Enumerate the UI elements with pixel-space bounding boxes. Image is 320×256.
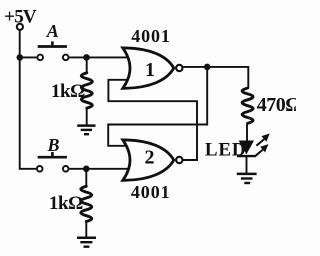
- svg-text:A: A: [46, 21, 59, 41]
- wire: resistor R2 down to ground: [85, 221, 87, 237]
- node: +5V supply terminal circle: [17, 24, 23, 30]
- ground below R1: [77, 126, 95, 135]
- svg-text:4001: 4001: [131, 26, 171, 46]
- wire: resistor R1 down to ground: [86, 108, 88, 125]
- NOR gate U1 (4001) gate 1 body: [123, 48, 174, 88]
- wire: gate 1 output to 470 ohm resistor (top net Q): [183, 67, 248, 89]
- node: junction dot Q output net: [204, 64, 211, 71]
- svg-text:LED: LED: [205, 139, 246, 160]
- wire: feedback from node Q down to gate 2 upper input: [108, 67, 207, 146]
- wire: feedback from gate 2 output up to gate 1 lower input: [108, 80, 197, 160]
- svg-text:470Ω: 470Ω: [257, 94, 296, 116]
- LED D1 triangle (anode): [240, 141, 254, 153]
- svg-text:2: 2: [145, 147, 155, 169]
- wire: switch B junction down to resistor R2: [85, 169, 87, 187]
- wire: switch B to NOR gate 2 input B: [69, 168, 128, 170]
- pushbutton A contacts: [37, 55, 68, 61]
- wire: switch A to NOR gate 1 input A: [69, 56, 128, 58]
- node: junction dot row A / rail: [17, 54, 24, 61]
- pushbutton A actuator bar: [38, 41, 67, 46]
- svg-text:4001: 4001: [131, 182, 171, 202]
- node: junction dot row B / resistor R2: [83, 166, 90, 173]
- svg-text:+5V: +5V: [4, 6, 37, 27]
- wire: LED cathode down to ground: [246, 157, 248, 173]
- wire: row A from rail to switch A: [20, 56, 37, 58]
- pushbutton B actuator bar: [38, 152, 67, 157]
- ground below LED: [237, 174, 257, 183]
- resistor R1 1k ohm (under switch A): [81, 73, 92, 108]
- node: junction dot row A / resistor R1: [83, 54, 90, 61]
- LED light arrow 2: [255, 144, 268, 156]
- NOR gate U2 (4001) gate 2 body: [123, 140, 174, 180]
- pushbutton B contacts: [37, 166, 69, 172]
- svg-text:1: 1: [145, 59, 155, 81]
- wire: left vertical rail from +5V terminal down to switch B row corner: [20, 31, 36, 169]
- resistor R3 470 ohm: [242, 88, 253, 123]
- svg-text:1kΩ: 1kΩ: [51, 81, 85, 102]
- NOR gate 2 output bubble: [176, 157, 182, 163]
- LED cathode bar: [237, 155, 256, 157]
- wire: switch A junction down to resistor R1: [86, 57, 88, 73]
- wire: resistor 470 down to LED anode: [246, 124, 248, 142]
- svg-text:1kΩ: 1kΩ: [49, 193, 83, 214]
- svg-text:B: B: [46, 135, 59, 155]
- resistor R2 1k ohm (under switch B): [81, 186, 92, 221]
- NOR gate 1 output bubble: [176, 65, 182, 71]
- LED light arrow 1: [256, 134, 269, 146]
- ground below R2: [77, 238, 96, 247]
